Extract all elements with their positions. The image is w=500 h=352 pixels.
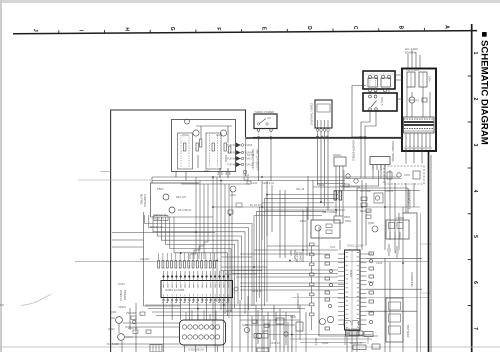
svg-text:IC301 LC7265: IC301 LC7265 <box>165 288 185 292</box>
diode bridge D701 protection (dashed box) <box>384 166 424 184</box>
main block border left <box>111 110 246 352</box>
svg-text:R601: R601 <box>345 219 352 223</box>
svg-text:R310 1K: R310 1K <box>252 289 262 293</box>
ruler grid letters (rotated page) <box>32 25 449 32</box>
svg-text:Q102: Q102 <box>216 133 223 137</box>
svg-text:IC201: IC201 <box>118 282 125 286</box>
IC301 top pin junctions <box>162 275 229 277</box>
IC IC301 LC7265 display driver <box>161 281 233 298</box>
svg-text:R604: R604 <box>344 215 351 219</box>
svg-text:REG 12V: REG 12V <box>360 210 371 213</box>
svg-text:Q601: Q601 <box>368 221 375 225</box>
ruler ticks vertical <box>468 76 472 306</box>
svg-text:TUN C: TUN C <box>245 157 253 161</box>
svg-text:LED 5V: LED 5V <box>155 217 164 221</box>
svg-text:MUTE 12V: MUTE 12V <box>150 225 163 229</box>
wires IC601 to right border <box>340 240 422 352</box>
svg-text:7: 7 <box>472 327 478 330</box>
capacitors C605 C606 <box>387 244 399 258</box>
oscillator coil L201 cluster <box>230 186 236 192</box>
svg-text:2SA733: 2SA733 <box>128 326 138 330</box>
small cluster above (sw power) <box>322 210 375 225</box>
svg-text:B: B <box>398 26 404 30</box>
svg-text:IC601: IC601 <box>349 270 353 278</box>
right thick border <box>428 150 430 352</box>
svg-text:3: 3 <box>472 144 478 147</box>
long wire y244 <box>421 243 432 245</box>
svg-text:Q101: Q101 <box>182 133 189 137</box>
IC IC302 M5218 op-amp <box>186 310 216 320</box>
svg-text:PB01: PB01 <box>157 187 164 191</box>
transistors Q301 Q302 <box>116 317 123 324</box>
svg-text:C122: C122 <box>251 181 258 185</box>
wires from CN box / antenna mid field verticals <box>262 176 313 258</box>
long verticals power area to bottom <box>303 170 403 352</box>
svg-text:HEADPHONES: HEADPHONES <box>352 140 356 161</box>
svg-text:50/60Hz: 50/60Hz <box>405 50 417 54</box>
svg-text:Q306: Q306 <box>262 329 269 333</box>
svg-text:VOL: VOL <box>330 245 336 249</box>
svg-text:MUTING: MUTING <box>140 194 144 205</box>
svg-text:TUN FR: TUN FR <box>227 151 237 155</box>
long wire y263 <box>75 261 428 263</box>
pin number ticks inside IC <box>164 282 229 297</box>
svg-text:B+ 13.2V: B+ 13.2V <box>250 203 261 207</box>
relay RY601 <box>363 71 395 89</box>
svg-text:PRI 0-120V: PRI 0-120V <box>406 68 420 72</box>
tuner circuitry <box>176 119 232 181</box>
right section boxes <box>403 213 418 352</box>
svg-text:BOARD: BOARD <box>299 252 303 262</box>
svg-text:Q301: Q301 <box>110 310 117 314</box>
svg-text:F1: F1 <box>416 99 420 103</box>
battery compartment BT601 <box>386 298 403 342</box>
bottom page rule y347 <box>0 346 500 348</box>
svg-text:C315 47: C315 47 <box>270 341 280 345</box>
svg-text:2SC945: 2SC945 <box>126 311 136 315</box>
relay to power block links <box>373 75 402 179</box>
right thin verticals <box>420 213 422 352</box>
transformer T601 primary windings <box>407 72 415 87</box>
switch SW601 power <box>254 114 277 129</box>
bottom small connector box <box>150 345 162 352</box>
transistors Q701 Q702 <box>346 174 350 178</box>
svg-text:TUN AM: TUN AM <box>227 163 237 167</box>
supervisory section box <box>357 188 408 250</box>
IC601 left pins <box>338 254 345 324</box>
supervisory section Q601 parts <box>361 193 383 218</box>
transformer T601 core and secondary <box>404 117 435 133</box>
horizontal bundle IC301 to IC601 <box>233 270 345 290</box>
AC power lead-in <box>408 50 420 68</box>
svg-text:R315: R315 <box>226 309 233 313</box>
long wire y293 <box>421 292 432 294</box>
AC power label <box>405 47 418 54</box>
svg-text:KEY: KEY <box>289 250 293 256</box>
left scan edge strip <box>0 0 2 352</box>
bottom centre component clusters <box>244 318 303 352</box>
long wire y137 <box>253 136 402 138</box>
svg-text:R2A 12V: R2A 12V <box>176 195 187 199</box>
svg-text:IC601 LA1260: IC601 LA1260 <box>347 244 364 248</box>
svg-text:POWER TRANS: POWER TRANS <box>391 141 395 162</box>
svg-text:A: A <box>443 25 449 29</box>
connector CN701 supervisory <box>370 157 390 165</box>
pin numbers smudge below <box>162 302 230 304</box>
pin label smudges inside IC <box>163 284 229 287</box>
label box on bus <box>154 216 168 221</box>
diode D601 and resistors R610 <box>320 319 381 350</box>
svg-text:2: 2 <box>472 98 478 101</box>
connector CN501 tape/ext <box>315 100 332 128</box>
transformer T601 power block <box>402 69 436 152</box>
IC601 right pins <box>360 254 367 324</box>
IC601 right side passives <box>369 252 374 324</box>
svg-text:6: 6 <box>472 281 478 284</box>
svg-text:G: G <box>169 27 175 31</box>
bottom mid vertical bundle <box>240 310 300 352</box>
svg-text:VR301: VR301 <box>118 305 126 309</box>
svg-text:J: J <box>32 29 38 32</box>
svg-text:H: H <box>123 27 129 31</box>
svg-text:AM ANT: AM ANT <box>140 257 150 261</box>
wires below big IC <box>145 296 310 352</box>
horizontal ruler line <box>13 31 477 34</box>
wires power block bottom down <box>406 149 422 214</box>
svg-text:BATTERY: BATTERY <box>406 325 410 338</box>
svg-text:TUN AM: TUN AM <box>227 157 237 161</box>
svg-text:IC302 M5218: IC302 M5218 <box>188 348 204 352</box>
svg-text:KEY SW: KEY SW <box>295 252 299 263</box>
svg-text:C612: C612 <box>366 252 373 256</box>
svg-text:CN501 TAPE/EXT: CN501 TAPE/EXT <box>310 103 314 126</box>
IF coil L102 <box>206 133 221 169</box>
tuner module TU101 outer box <box>172 120 236 172</box>
svg-text:TUN C: TUN C <box>245 163 253 167</box>
svg-text:4: 4 <box>472 190 478 193</box>
svg-text:VOLTAGE: VOLTAGE <box>407 190 411 204</box>
switch SW701 AC <box>363 93 397 111</box>
resistor network RA601 <box>334 157 346 166</box>
tie bundle above IC <box>221 257 267 274</box>
svg-text:D: D <box>306 26 312 30</box>
connector CN602 <box>334 216 343 223</box>
svg-text:TUN FR: TUN FR <box>227 143 237 147</box>
muting control block Q201 Q202 <box>151 183 200 217</box>
surrounding enclosure <box>319 227 378 336</box>
svg-text:CN605: CN605 <box>396 216 405 220</box>
varactor diodes D101-D104 <box>236 143 241 167</box>
junction dots <box>180 176 404 335</box>
top scan edge bar <box>2 0 500 3</box>
svg-text:CARRYING: CARRYING <box>410 272 414 287</box>
IC301 bottom pin junctions <box>163 299 230 301</box>
svg-text:240V: 240V <box>428 76 432 82</box>
svg-text:L201: L201 <box>230 193 236 197</box>
svg-text:F: F <box>215 27 221 30</box>
svg-text:AMP MUTE: AMP MUTE <box>153 213 167 217</box>
svg-text:CONTROL: CONTROL <box>143 194 147 208</box>
transformer T601 secondary pins <box>406 133 430 147</box>
vertical ruler line <box>471 24 473 352</box>
IC601 left side passives <box>325 255 334 330</box>
keyboard switches S601-S608 <box>310 243 315 330</box>
fuse F1 <box>409 97 415 103</box>
svg-text:■ SCHEMATIC DIAGRAM: ■ SCHEMATIC DIAGRAM <box>479 32 490 145</box>
svg-text:SW601 POWER: SW601 POWER <box>255 110 274 114</box>
relay to switch dashed wires <box>370 80 376 95</box>
tuner bottom wires <box>152 177 400 184</box>
svg-text:SW POWER: SW POWER <box>322 210 337 214</box>
long wire under switch area y178 <box>344 178 402 180</box>
svg-text:1: 1 <box>472 52 478 55</box>
relay RY601 pins <box>369 89 372 92</box>
svg-text:5: 5 <box>472 235 478 238</box>
svg-text:D4x PBG R: D4x PBG R <box>178 208 192 212</box>
svg-text:SW +B: SW +B <box>296 187 304 191</box>
svg-text:R112: R112 <box>204 169 211 173</box>
svg-text:TUN B: TUN B <box>245 151 253 155</box>
svg-text:D501: D501 <box>300 219 307 223</box>
IC301 top pins <box>164 271 229 281</box>
resistor array R301-R314 <box>158 253 216 268</box>
svg-text:DRIVER: DRIVER <box>123 290 127 300</box>
IC301 bottom pins <box>164 298 229 304</box>
long wire y207 <box>213 206 420 208</box>
svg-text:RA601: RA601 <box>333 153 341 157</box>
ruler ticks horizontal <box>59 28 425 34</box>
svg-text:C: C <box>352 26 358 30</box>
ruler grid numbers (rotated page) <box>472 52 478 331</box>
connector CN605 speaker <box>386 220 409 239</box>
svg-text:Q302: Q302 <box>108 327 115 331</box>
svg-text:MUTE: MUTE <box>314 338 318 346</box>
main block top border (thick) <box>246 137 403 139</box>
pencil curve <box>21 295 51 306</box>
svg-text:R321: R321 <box>290 315 297 319</box>
left edge mark <box>0 304 4 306</box>
svg-text:C204 0.01: C204 0.01 <box>262 181 275 185</box>
svg-text:Q603: Q603 <box>322 341 329 345</box>
headphone wires from switch <box>361 111 370 136</box>
svg-text:AUTO/MAN: AUTO/MAN <box>296 293 300 309</box>
capacitors C110 C111 <box>218 168 231 178</box>
extra horizontals mid-right <box>240 184 420 255</box>
IF coil L101 <box>178 133 193 169</box>
svg-text:SW1.5: SW1.5 <box>380 97 384 106</box>
svg-text:SWITCH ON/OFF: SWITCH ON/OFF <box>256 149 260 171</box>
svg-text:DISPLAY: DISPLAY <box>119 290 123 301</box>
svg-text:TUN B: TUN B <box>245 143 253 147</box>
transistor Q501 switch block <box>311 220 340 238</box>
IC IC601 LA1260 <box>345 250 361 330</box>
svg-text:R612: R612 <box>368 280 375 284</box>
page title: SCHEMATIC DIAGRAM (rotated) <box>479 32 490 145</box>
